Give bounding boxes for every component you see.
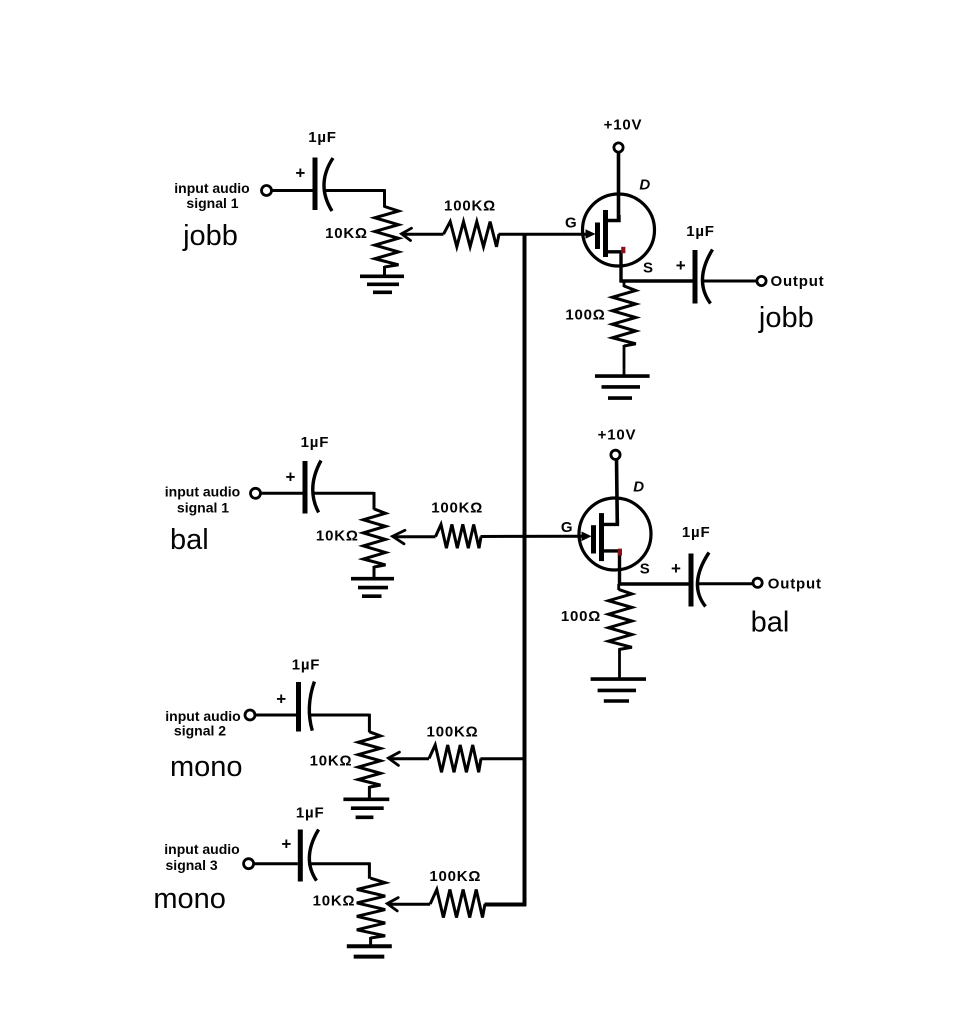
wire: C1 to potentiometer VR1 top bbox=[324, 189, 385, 192]
wire: R1 to bus and Q1 gate bbox=[499, 233, 587, 236]
svg-text:+: + bbox=[276, 689, 286, 708]
svg-text:100KΩ: 100KΩ bbox=[431, 500, 483, 517]
wire: C5 to output terminal bbox=[703, 280, 757, 283]
svg-text:1µF: 1µF bbox=[682, 524, 711, 541]
svg-text:1µF: 1µF bbox=[292, 657, 321, 674]
wire: Q1 source node bbox=[620, 279, 693, 282]
wire: R4 to ground bbox=[618, 649, 621, 680]
svg-text:G: G bbox=[561, 519, 573, 536]
svg-text:100KΩ: 100KΩ bbox=[427, 723, 479, 740]
wire: R6 to bus bottom corner bbox=[485, 903, 527, 907]
svg-text:signal 3: signal 3 bbox=[166, 857, 218, 873]
wire: wiper to R3 bbox=[394, 535, 436, 538]
wire: VR4 bottom to ground bbox=[369, 937, 372, 947]
svg-text:+10V: +10V bbox=[598, 426, 637, 443]
wire: VR2 bottom to ground bbox=[373, 566, 376, 579]
capacitor C4 1uF bbox=[298, 830, 303, 882]
potentiometer VR3 wiper arrow bbox=[388, 752, 399, 765]
svg-text:signal 1: signal 1 bbox=[177, 500, 229, 516]
resistor R3 100K bbox=[436, 524, 482, 548]
resistor R4 100 ohm (Q2 source) bbox=[617, 584, 620, 590]
input terminal (signal 1 jobb) bbox=[262, 186, 272, 196]
svg-text:100Ω: 100Ω bbox=[561, 608, 601, 625]
resistor R1 100K bbox=[444, 222, 500, 247]
ground (Q1 source resistor) bbox=[595, 374, 650, 378]
wire: input 3 to C3 bbox=[256, 714, 297, 717]
ground (stage 2) bbox=[351, 577, 394, 581]
svg-text:G: G bbox=[565, 215, 577, 232]
wire: common gate bus (vertical) bbox=[523, 233, 527, 906]
svg-text:S: S bbox=[640, 561, 650, 578]
svg-text:jobb: jobb bbox=[758, 302, 814, 334]
svg-text:100KΩ: 100KΩ bbox=[429, 868, 481, 885]
ground (stage 1) bbox=[360, 274, 404, 278]
wire: input 4 to C4 bbox=[254, 862, 298, 865]
svg-text:D: D bbox=[633, 479, 644, 496]
wire: Q2 source node bbox=[618, 582, 689, 585]
wire: VR1 bottom to ground bbox=[383, 266, 386, 276]
wire: C6 to output terminal bbox=[698, 582, 753, 585]
input terminal (signal 1 bal) bbox=[251, 488, 261, 498]
svg-text:1µF: 1µF bbox=[301, 434, 330, 451]
wire: R3 to bus and Q2 gate bbox=[481, 535, 582, 538]
svg-text:bal: bal bbox=[751, 607, 790, 639]
resistor R6 100K bbox=[430, 890, 485, 918]
svg-text:S: S bbox=[643, 260, 653, 277]
svg-text:+10V: +10V bbox=[604, 116, 643, 133]
svg-text:mono: mono bbox=[170, 751, 243, 783]
svg-text:+: + bbox=[671, 559, 681, 578]
input terminal (signal 3) bbox=[244, 859, 254, 869]
svg-text:+: + bbox=[281, 835, 291, 854]
svg-text:10KΩ: 10KΩ bbox=[313, 893, 356, 910]
ground (stage 3) bbox=[343, 797, 389, 801]
wire: input 2 to C2 bbox=[261, 492, 303, 495]
ground (Q2 source resistor) bbox=[591, 677, 646, 681]
capacitor C6 1uF (output bal) bbox=[689, 554, 694, 607]
svg-text:1µF: 1µF bbox=[308, 129, 337, 146]
output terminal (bal) bbox=[753, 578, 762, 587]
ground (stage 4) bbox=[347, 944, 392, 948]
potentiometer VR2 10K bbox=[363, 509, 385, 567]
svg-text:input audio: input audio bbox=[165, 483, 240, 499]
potentiometer VR2 wiper arrow bbox=[393, 530, 406, 544]
svg-text:+: + bbox=[676, 256, 686, 275]
svg-text:input audio: input audio bbox=[164, 841, 239, 857]
svg-text:+: + bbox=[286, 468, 296, 487]
transistor Q1 (JFET) bbox=[583, 194, 655, 282]
capacitor C2 1uF bbox=[303, 461, 308, 514]
svg-text:1µF: 1µF bbox=[296, 804, 325, 821]
wire: +10V to Q2 drain bbox=[615, 458, 619, 525]
svg-text:Output: Output bbox=[768, 575, 822, 592]
svg-text:100KΩ: 100KΩ bbox=[444, 198, 496, 215]
svg-text:+: + bbox=[295, 164, 305, 183]
capacitor C1 1uF bbox=[313, 158, 318, 211]
wire: wiper to R6 bbox=[388, 903, 430, 906]
wire: wiper to R5 bbox=[389, 757, 429, 760]
potentiometer VR1 10K bbox=[375, 207, 399, 268]
wire: C2 to potentiometer VR2 top bbox=[313, 492, 375, 495]
capacitor C3 1uF bbox=[296, 682, 301, 732]
potentiometer VR3 10K bbox=[358, 732, 380, 787]
wire: R5 to bus bbox=[481, 757, 525, 760]
resistor R5 100K bbox=[429, 745, 481, 772]
potentiometer VR4 wiper arrow bbox=[387, 898, 398, 911]
svg-text:input audio: input audio bbox=[174, 180, 249, 196]
svg-text:1µF: 1µF bbox=[686, 223, 715, 240]
potentiometer VR4 10K bbox=[357, 878, 385, 938]
svg-text:mono: mono bbox=[153, 883, 226, 915]
svg-text:jobb: jobb bbox=[182, 220, 238, 252]
wire: wiper to R1 bbox=[403, 233, 444, 236]
output terminal (jobb) bbox=[757, 276, 766, 285]
svg-text:signal 1: signal 1 bbox=[186, 195, 238, 211]
transistor Q2 (JFET) bbox=[579, 498, 651, 585]
svg-text:10KΩ: 10KΩ bbox=[316, 528, 359, 545]
svg-text:bal: bal bbox=[170, 524, 209, 556]
svg-text:signal 2: signal 2 bbox=[174, 722, 226, 738]
resistor R2 100 ohm (Q1 source) bbox=[623, 281, 626, 287]
wire: +10V to Q1 drain bbox=[617, 152, 621, 221]
wire: C4 to potentiometer VR4 top bbox=[308, 862, 369, 865]
svg-text:10KΩ: 10KΩ bbox=[310, 753, 353, 770]
wire: input 1 to C1 bbox=[272, 189, 313, 192]
svg-text:D: D bbox=[639, 177, 650, 194]
wire: VR3 bottom to ground bbox=[368, 786, 371, 799]
potentiometer VR1 wiper arrow bbox=[402, 228, 412, 240]
wire: C3 to potentiometer VR3 top bbox=[308, 714, 369, 717]
svg-text:100Ω: 100Ω bbox=[565, 306, 605, 323]
input terminal (signal 2) bbox=[245, 710, 255, 720]
svg-text:Output: Output bbox=[771, 273, 825, 290]
capacitor C5 1uF (output jobb) bbox=[693, 250, 698, 304]
wire: R2 to ground bbox=[623, 345, 626, 376]
svg-text:10KΩ: 10KΩ bbox=[325, 225, 368, 242]
